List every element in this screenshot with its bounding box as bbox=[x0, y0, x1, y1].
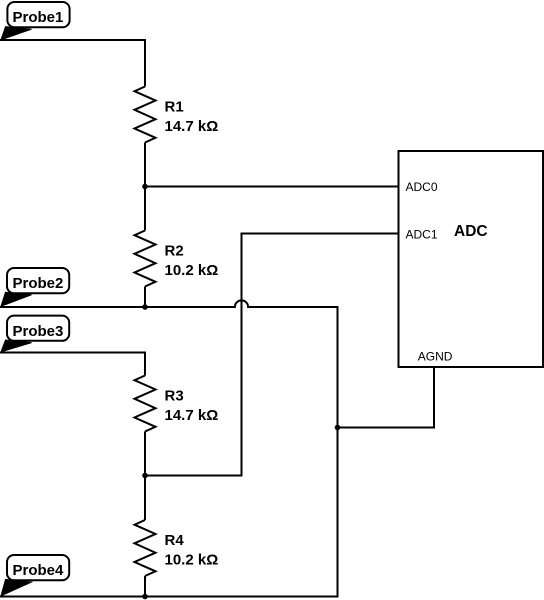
svg-text:AGND: AGND bbox=[418, 350, 453, 364]
wire node to ADC0 pin bbox=[145, 186, 400, 188]
junction R3/R4/ADC1 bbox=[142, 473, 148, 479]
wire R1 bottom to R2 top bbox=[144, 143, 146, 231]
svg-text:Probe3: Probe3 bbox=[13, 323, 64, 340]
wire R3 bottom to R4 top bbox=[144, 432, 146, 521]
wire AGND pin to ground net bbox=[338, 367, 435, 428]
probe Probe3 bbox=[1, 316, 69, 352]
probe Probe2 bbox=[1, 268, 69, 306]
resistor R2 bbox=[135, 231, 156, 287]
wire R4 bottom to Probe4 line bbox=[144, 576, 146, 597]
wire node to ADC1 pin bbox=[145, 234, 400, 476]
junction R2/Probe2 bbox=[142, 304, 148, 310]
svg-text:Probe1: Probe1 bbox=[13, 9, 64, 26]
wire Probe1 to R1 top bbox=[0, 40, 145, 87]
resistor R3 bbox=[135, 376, 156, 432]
svg-text:R1: R1 bbox=[165, 99, 184, 116]
wire Probe3 to R3 top bbox=[0, 353, 145, 376]
junction AGND/ground net bbox=[335, 425, 341, 431]
resistor R1 bbox=[135, 87, 156, 143]
IC U1 ADC box bbox=[399, 151, 544, 367]
svg-text:R3: R3 bbox=[165, 388, 184, 405]
junction R1/R2/ADC0 bbox=[142, 184, 148, 190]
probe Probe1 bbox=[1, 2, 70, 40]
svg-text:R4: R4 bbox=[165, 532, 185, 549]
resistor R4 bbox=[135, 520, 156, 576]
svg-text:ADC1: ADC1 bbox=[406, 228, 438, 242]
svg-text:10.2 kΩ: 10.2 kΩ bbox=[165, 262, 219, 279]
svg-text:Probe4: Probe4 bbox=[13, 562, 65, 579]
svg-text:10.2 kΩ: 10.2 kΩ bbox=[165, 552, 219, 569]
wire Probe2 line with hop over ADC1 wire, down right side to Probe4 line bbox=[0, 300, 338, 596]
svg-text:ADC0: ADC0 bbox=[406, 180, 438, 194]
probe Probe4 bbox=[1, 555, 69, 596]
svg-text:14.7 kΩ: 14.7 kΩ bbox=[165, 118, 219, 135]
wire R2 bottom to Probe2 line bbox=[144, 287, 146, 308]
svg-text:ADC: ADC bbox=[454, 223, 488, 240]
junction R4/Probe4 bbox=[142, 594, 148, 600]
svg-text:14.7 kΩ: 14.7 kΩ bbox=[165, 407, 219, 424]
svg-text:R2: R2 bbox=[165, 243, 184, 260]
svg-text:Probe2: Probe2 bbox=[13, 275, 64, 292]
